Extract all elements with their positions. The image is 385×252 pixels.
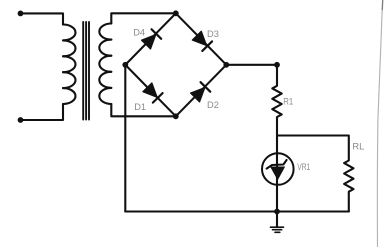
svg-text:D1: D1 — [134, 102, 146, 112]
svg-text:D4: D4 — [133, 27, 145, 37]
svg-text:RL: RL — [352, 142, 364, 152]
svg-text:VR1: VR1 — [297, 162, 310, 172]
svg-text:D3: D3 — [207, 29, 219, 39]
svg-text:D2: D2 — [207, 100, 219, 110]
svg-text:R1: R1 — [283, 96, 293, 107]
